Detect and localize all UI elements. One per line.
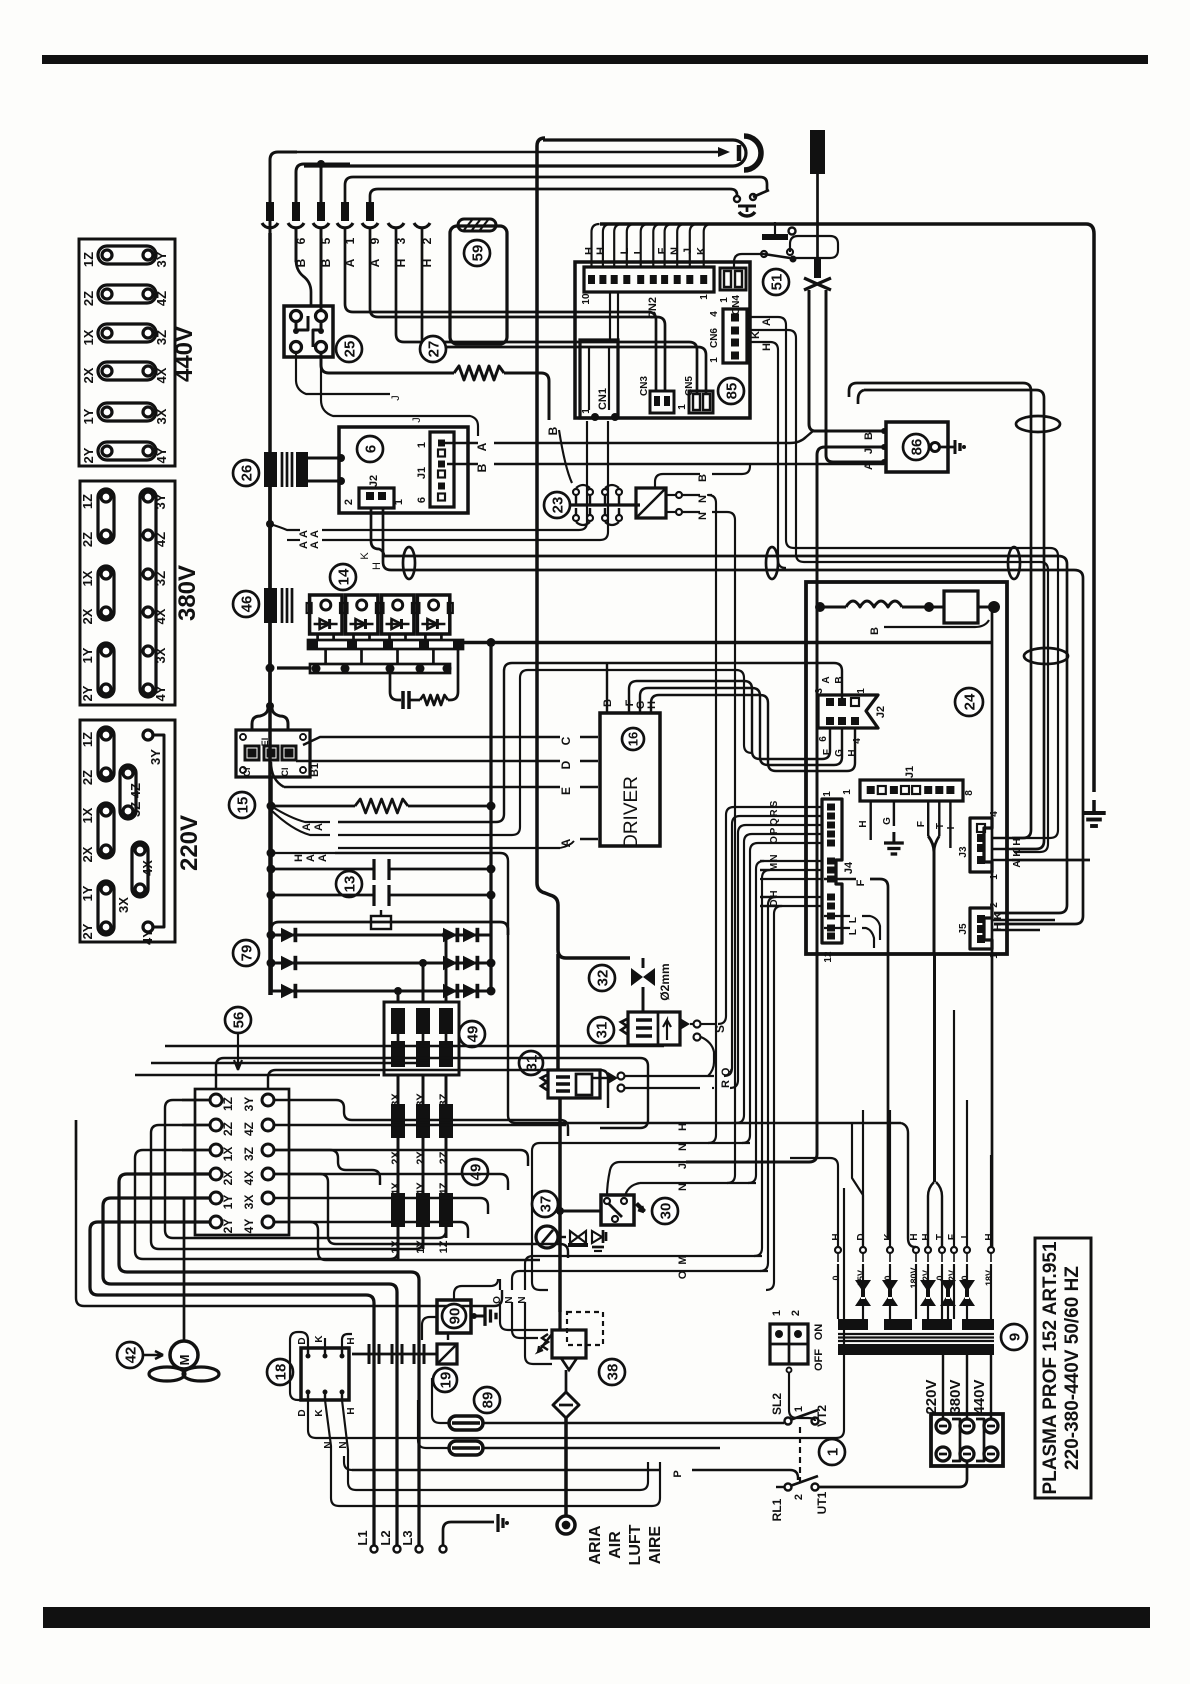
diode rows 79: [271, 934, 460, 937]
svg-text:1: 1: [416, 442, 428, 448]
wires H K A from CN6: [747, 317, 1058, 838]
svg-text:90: 90: [446, 1308, 463, 1325]
svg-text:N: N: [697, 495, 709, 503]
svg-text:4Y: 4Y: [242, 1219, 256, 1234]
svg-text:26: 26: [238, 465, 255, 482]
wires solenoid loop: [642, 958, 645, 968]
svg-text:A: A: [313, 823, 325, 831]
svg-text:2: 2: [793, 1494, 805, 1500]
svg-text:B: B: [546, 426, 560, 435]
svg-text:2Z: 2Z: [80, 770, 95, 785]
svg-text:L1: L1: [355, 1530, 370, 1545]
PLASMA PROF label box: [1035, 1238, 1091, 1498]
wires 56 right to resistor columns: [274, 1100, 548, 1134]
svg-text:12V: 12V: [947, 1270, 957, 1286]
svg-text:46: 46: [238, 596, 255, 613]
svg-text:1Y: 1Y: [80, 647, 95, 663]
wire right edge from J3 region down: [1055, 912, 1067, 920]
svg-text:CI: CI: [280, 768, 290, 777]
svg-text:N: N: [697, 512, 709, 520]
svg-text:SL2: SL2: [770, 1393, 784, 1415]
svg-text:H: H: [761, 343, 773, 351]
svg-text:1Z: 1Z: [80, 494, 95, 509]
svg-text:CI: CI: [242, 768, 252, 777]
svg-text:3Z: 3Z: [242, 1147, 256, 1161]
svg-text:2Z: 2Z: [221, 1122, 235, 1136]
svg-text:J1: J1: [904, 766, 916, 778]
svg-text:1: 1: [822, 791, 833, 797]
connector CN4: [720, 268, 746, 290]
terminal block 56: [195, 1089, 289, 1235]
svg-text:D: D: [856, 1233, 867, 1240]
svg-text:O: O: [492, 1296, 503, 1304]
capacitor 13 lower: [267, 891, 276, 900]
connector J2 of 24: [818, 695, 878, 728]
svg-text:86: 86: [908, 439, 925, 456]
wire S: [701, 1023, 716, 1025]
voltage select terminal block 9: [931, 1414, 1003, 1466]
circled 26: [233, 460, 259, 486]
group C stubs to loops: [397, 1227, 400, 1259]
svg-text:J: J: [677, 1163, 689, 1169]
electrode rod top right: [810, 130, 825, 174]
capacitor 13 upper: [267, 865, 276, 874]
svg-text:T: T: [935, 1234, 946, 1240]
svg-text:R: R: [720, 1080, 732, 1088]
svg-text:25: 25: [341, 341, 358, 358]
circled 24: [955, 688, 983, 716]
svg-text:ARIA: ARIA: [587, 1525, 604, 1565]
svg-text:A: A: [305, 854, 317, 862]
svg-text:K: K: [314, 1409, 325, 1417]
solenoid 31b: [519, 1051, 543, 1075]
svg-text:2: 2: [790, 1310, 802, 1316]
wires N N B from 23: [666, 494, 676, 496]
svg-text:18V: 18V: [984, 1270, 994, 1286]
connector CN5: [689, 391, 713, 413]
svg-text:AIRE: AIRE: [647, 1526, 664, 1565]
svg-text:J: J: [682, 248, 694, 254]
svg-text:H: H: [847, 749, 858, 756]
svg-text:3Y: 3Y: [154, 251, 169, 267]
svg-text:H: H: [909, 1233, 920, 1240]
svg-text:6: 6: [362, 445, 379, 453]
connector J2 of box 6: [359, 488, 394, 508]
diode bus bar lower: [310, 664, 450, 673]
snubber cap resistor: [390, 673, 401, 700]
svg-text:S: S: [713, 1025, 727, 1033]
svg-text:13: 13: [341, 876, 358, 893]
svg-text:51: 51: [768, 274, 785, 291]
J4 F wire: [824, 878, 856, 880]
svg-text:3Y: 3Y: [415, 1093, 427, 1107]
connector CN6: [723, 309, 747, 363]
wires left circles short: [182, 1099, 210, 1101]
box 18 top stubs: [324, 1338, 326, 1348]
svg-text:A: A: [761, 318, 773, 326]
svg-text:J1: J1: [416, 467, 428, 479]
connector J5 of 24: [970, 908, 992, 949]
box 86: [886, 422, 948, 472]
torch assembly top: [304, 140, 746, 166]
transformer 9 core lines: [838, 1333, 994, 1335]
main three phase L1 L2 L3 terminals: [371, 1546, 378, 1553]
svg-text:CN6: CN6: [709, 328, 720, 348]
trafo fuses: [855, 1280, 871, 1306]
svg-text:180V: 180V: [909, 1267, 919, 1288]
wire top x321: [320, 164, 323, 203]
svg-text:A: A: [475, 442, 489, 451]
svg-text:N: N: [677, 1143, 689, 1151]
rectifier block of 23: [636, 488, 666, 518]
svg-text:H: H: [1012, 838, 1023, 845]
circled 46: [233, 591, 259, 617]
wire J from 86 down to J line: [686, 447, 884, 1162]
svg-text:A: A: [1012, 860, 1023, 867]
circled 51: [763, 269, 789, 295]
svg-text:2Y: 2Y: [80, 923, 95, 939]
svg-text:P: P: [672, 1470, 684, 1477]
svg-text:56: 56: [230, 1012, 247, 1029]
box 6 control pcb: [339, 427, 468, 513]
svg-text:N: N: [669, 247, 681, 255]
svg-text:19: 19: [437, 1372, 454, 1389]
main air vertical: [558, 1098, 562, 1312]
transformer 9 secondary bar: [838, 1344, 994, 1355]
wires from trafo circles up: [790, 1158, 838, 1247]
dashed link: [799, 1427, 801, 1483]
air feed jog: [537, 875, 630, 958]
inductor and igbt in 24: [815, 602, 825, 612]
driver box 16: [600, 713, 660, 846]
svg-text:4Z: 4Z: [154, 291, 169, 306]
svg-text:B: B: [869, 627, 881, 635]
resistor group low: [391, 1193, 405, 1227]
circled 1: [819, 1439, 845, 1465]
svg-text:AIR: AIR: [607, 1531, 624, 1559]
svg-text:12: 12: [823, 951, 834, 963]
ground bottom: [440, 1546, 447, 1553]
relay 25: [284, 306, 333, 357]
svg-text:H: H: [346, 1337, 357, 1344]
svg-text:2Y: 2Y: [221, 1219, 235, 1234]
box 85 outline: [575, 262, 750, 418]
svg-text:M: M: [677, 1255, 689, 1264]
OFF wire down: [785, 1417, 789, 1421]
enclosure wire upper left: [538, 880, 548, 930]
svg-text:H: H: [858, 820, 869, 827]
maze wires around 56 block: [274, 1150, 380, 1185]
svg-text:1: 1: [771, 1310, 783, 1316]
wires from 18 bottom: [308, 1400, 330, 1428]
wire top x370 to switch: [370, 189, 737, 203]
svg-text:H: H: [293, 854, 305, 862]
svg-text:N: N: [677, 1183, 689, 1191]
svg-text:N: N: [504, 1296, 515, 1303]
svg-text:380V: 380V: [174, 565, 201, 621]
svg-text:F: F: [916, 821, 927, 827]
wires K H from J2 down to bundle: [371, 508, 1067, 913]
svg-text:F: F: [947, 1234, 958, 1240]
circled 49 lower: [462, 1159, 488, 1185]
svg-text:N: N: [323, 1441, 334, 1448]
svg-text:2X: 2X: [80, 846, 95, 862]
solenoid 31a: [588, 1017, 614, 1043]
svg-text:42: 42: [122, 1347, 139, 1364]
torch cable pair down: [809, 290, 884, 431]
svg-text:G: G: [834, 749, 845, 757]
connector CN1: [580, 340, 618, 418]
diode bus bar upper: [308, 640, 463, 649]
svg-text:85: 85: [723, 383, 740, 400]
J4 wires left with labels: [760, 806, 822, 808]
circled 85: [718, 378, 744, 404]
motor wire up: [183, 1198, 186, 1341]
main vertical wire left (node A feed): [268, 233, 272, 588]
air line down: [564, 1418, 568, 1516]
wire hook6 to relay: [296, 228, 311, 306]
wire relay J lines: [296, 353, 390, 394]
svg-text:10: 10: [581, 293, 592, 305]
svg-text:OFF: OFF: [813, 1349, 825, 1371]
svg-text:D: D: [297, 1409, 308, 1416]
svg-text:B: B: [834, 676, 845, 683]
svg-text:4X: 4X: [140, 860, 155, 876]
svg-text:38: 38: [604, 1364, 621, 1381]
svg-text:32: 32: [594, 970, 611, 987]
circled 59: [464, 240, 490, 266]
svg-text:3Z 4Z: 3Z 4Z: [128, 783, 143, 817]
wires CN2 to CN1: [609, 292, 611, 340]
svg-text:380V: 380V: [947, 1379, 964, 1414]
cable pair to J3: [857, 383, 1031, 838]
svg-text:1Y: 1Y: [80, 885, 95, 901]
nested loop bottoms right: [560, 1250, 648, 1281]
svg-text:0: 0: [960, 1275, 970, 1280]
J1 wires down: [869, 801, 871, 840]
dashed box 38: [567, 1312, 603, 1345]
J4 L L wires: [824, 915, 850, 917]
wires Q R: [625, 1075, 714, 1077]
svg-text:CN5: CN5: [684, 376, 695, 396]
svg-text:J: J: [390, 395, 402, 401]
top border bar: [42, 55, 1148, 64]
svg-text:12V: 12V: [921, 1270, 931, 1286]
svg-text:2X: 2X: [80, 608, 95, 624]
line N2: [640, 1182, 756, 1184]
svg-text:2Y: 2Y: [81, 447, 96, 463]
svg-text:T: T: [935, 823, 946, 829]
svg-text:G: G: [882, 817, 893, 825]
pilot arc switch top: [734, 196, 740, 202]
CN2 harness bundle to right: [600, 224, 1094, 792]
svg-text:F: F: [657, 247, 669, 254]
svg-text:CN3: CN3: [639, 376, 650, 396]
svg-text:ON: ON: [813, 1324, 825, 1341]
svg-text:1: 1: [581, 408, 592, 414]
svg-text:D: D: [297, 1337, 308, 1344]
box 24 outline: [806, 582, 1007, 954]
connector J3 of 24: [970, 818, 992, 872]
svg-text:1Z: 1Z: [81, 252, 96, 267]
svg-text:H: H: [677, 1123, 689, 1131]
trafo top circles and labels: [835, 1247, 841, 1253]
wire top x296: [296, 164, 350, 203]
svg-text:59: 59: [469, 245, 486, 262]
fan line A to vertical riser: [338, 814, 504, 822]
svg-text:9: 9: [1006, 1333, 1023, 1341]
svg-text:3Y: 3Y: [148, 749, 163, 765]
svg-text:H: H: [595, 247, 607, 255]
svg-text:1X: 1X: [221, 1147, 235, 1162]
svg-text:B: B: [475, 463, 489, 472]
svg-text:3X: 3X: [116, 897, 131, 913]
svg-text:1X: 1X: [81, 329, 96, 345]
svg-text:30: 30: [657, 1203, 674, 1220]
switch OFF ON: [770, 1324, 808, 1364]
svg-text:UT1: UT1: [815, 1491, 829, 1514]
nested rectangles left: [172, 1100, 210, 1250]
switch 30: [601, 1195, 634, 1225]
svg-text:3X: 3X: [390, 1093, 402, 1107]
bottom sweep wires: [790, 1410, 798, 1423]
J4 bundle sweeping down: [718, 807, 760, 1024]
svg-text:25V: 25V: [856, 1270, 866, 1286]
svg-text:O: O: [769, 836, 780, 844]
terminal block 440V: [79, 239, 175, 466]
svg-text:4Y: 4Y: [140, 929, 155, 945]
svg-text:1Z: 1Z: [221, 1097, 235, 1111]
svg-text:49: 49: [467, 1164, 484, 1181]
svg-text:Q: Q: [769, 818, 780, 826]
svg-text:16: 16: [626, 732, 641, 746]
svg-text:B1: B1: [309, 763, 321, 777]
svg-text:1Y: 1Y: [221, 1195, 235, 1210]
valve 32: [589, 965, 615, 991]
svg-text:3Z: 3Z: [438, 1093, 450, 1106]
wires bank down: [397, 1075, 400, 1104]
svg-text:B: B: [697, 474, 709, 482]
wire top corner x270: [270, 152, 297, 233]
svg-text:B: B: [863, 432, 875, 440]
svg-text:1Z: 1Z: [80, 732, 95, 747]
wire A J3 third: [1012, 859, 1090, 862]
circled 49 upper: [459, 1021, 485, 1047]
circled 9: [1001, 1324, 1027, 1350]
svg-text:EI: EI: [260, 738, 270, 747]
svg-text:K: K: [1012, 849, 1023, 857]
motor fan 42: [117, 1342, 143, 1368]
svg-text:1X: 1X: [80, 570, 95, 586]
svg-text:LUFT: LUFT: [627, 1524, 644, 1565]
capacitor row with 19: [352, 1353, 437, 1356]
circled 25: [336, 336, 362, 362]
svg-text:2X: 2X: [81, 367, 96, 383]
resistor 15 line: [267, 802, 276, 811]
wire top x345 to switch: [345, 177, 767, 203]
outermost loop to pneumatic block: [76, 1120, 502, 1306]
circled 56: [225, 1007, 251, 1033]
svg-text:37: 37: [537, 1196, 554, 1213]
svg-text:C: C: [559, 736, 573, 745]
svg-text:27: 27: [425, 341, 442, 358]
svg-text:1X: 1X: [390, 1240, 402, 1254]
svg-text:23: 23: [549, 497, 566, 514]
svg-text:J: J: [863, 448, 875, 454]
main vertical wire x537: [537, 138, 545, 875]
upper nested wires: [192, 1046, 368, 1100]
svg-text:K: K: [750, 331, 762, 339]
svg-text:L3: L3: [400, 1530, 415, 1545]
wires 56 left loops: [165, 1099, 210, 1101]
svg-text:2: 2: [343, 499, 355, 505]
svg-text:A: A: [863, 462, 875, 470]
svg-text:J: J: [411, 417, 423, 423]
filter regulator 38: [558, 1312, 561, 1330]
svg-text:RL1: RL1: [770, 1498, 784, 1521]
svg-text:I: I: [946, 826, 957, 829]
wire RL1 left: [790, 1470, 798, 1480]
svg-text:440V: 440V: [171, 326, 198, 382]
svg-text:31: 31: [593, 1022, 610, 1039]
svg-text:J2: J2: [368, 475, 380, 487]
circled 86: [903, 434, 929, 460]
suppressor 19: [437, 1344, 457, 1364]
svg-text:0: 0: [831, 1275, 841, 1280]
box 18 aux transformer: [267, 1359, 293, 1385]
vertical from igbt output down to trafo: [991, 607, 994, 1247]
transformer 9 primary bar: [838, 1319, 868, 1330]
svg-text:H: H: [346, 1407, 357, 1414]
resistor group mid: [391, 1104, 405, 1138]
svg-text:2X: 2X: [390, 1151, 402, 1165]
svg-text:0: 0: [935, 1275, 945, 1280]
svg-text:M: M: [177, 1355, 192, 1366]
gauge symbols: [570, 1231, 586, 1243]
ground at right vertical: [1082, 800, 1105, 826]
svg-text:H: H: [921, 1233, 932, 1240]
svg-text:L: L: [633, 247, 645, 254]
terminal block 380V: [80, 481, 175, 705]
svg-text:4Z: 4Z: [242, 1122, 256, 1136]
svg-text:220V: 220V: [923, 1379, 940, 1414]
circled 13: [336, 871, 362, 897]
wire D up loop: [290, 1332, 308, 1400]
air diamond: [565, 1370, 568, 1392]
driver top pins wires B F G H: [606, 663, 608, 713]
svg-text:1: 1: [719, 297, 730, 303]
terminal block 220V: [80, 720, 175, 942]
svg-text:8: 8: [964, 790, 975, 796]
label A A node: [270, 524, 300, 530]
resistor bank 49 box: [384, 1002, 459, 1075]
box 90: [422, 1317, 437, 1340]
connector J4 of 24: [822, 799, 842, 943]
trafo wire stubs: [837, 1264, 839, 1319]
line O: [520, 1270, 768, 1272]
svg-text:K: K: [883, 1233, 894, 1241]
connector CN3: [650, 391, 674, 413]
svg-text:L: L: [848, 929, 859, 935]
svg-text:K: K: [359, 552, 371, 560]
svg-text:89: 89: [479, 1392, 496, 1409]
svg-text:DRIVER: DRIVER: [621, 776, 642, 848]
line H to trafo: [610, 1122, 901, 1124]
wire UT1 to block: [966, 1466, 968, 1484]
svg-text:1: 1: [709, 357, 720, 363]
svg-text:4Y: 4Y: [415, 1182, 427, 1196]
svg-text:J4: J4: [843, 861, 855, 874]
